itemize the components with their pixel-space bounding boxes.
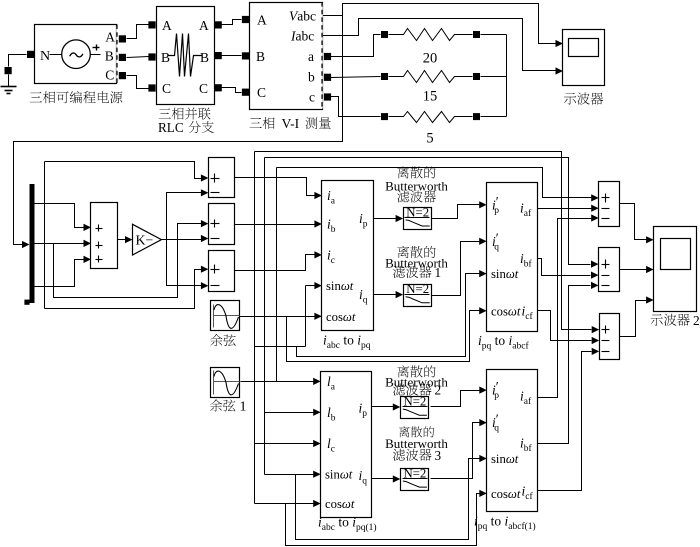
svg-text:B: B (105, 49, 114, 64)
wire lc input (255, 443, 314, 445)
wire bottom icf1 up to sum3 minus (538, 352, 592, 491)
wire cos branch down to right block cos (287, 311, 481, 362)
source N port (27, 51, 34, 58)
wire ip to filter1 (374, 218, 397, 220)
svg-text:cosωt: cosωt (491, 487, 521, 501)
iabc to ipq block (top) (322, 181, 374, 331)
wire Vabc to scope1 input1 (323, 4, 556, 44)
svg-text:cosωt: cosωt (326, 310, 356, 324)
ipq to iabcf block (top right) (487, 183, 538, 332)
wire H1 long horizontal to sum3plus (255, 152, 592, 330)
wire bus to summer input3 (35, 260, 85, 287)
svg-text:Iabc: Iabc (290, 28, 314, 43)
wire bus to summer input1 (35, 204, 85, 228)
wire sumC output to ic (235, 255, 315, 271)
wire ibf to sum2 (538, 259, 591, 276)
wire sum2 to scope2 (620, 269, 647, 271)
wire bottom ibf1 up to sum2 minus (538, 286, 591, 444)
svg-text:K−: K− (136, 233, 154, 248)
svg-text:1: 1 (435, 265, 442, 280)
wire cosine source to cos input top block (240, 316, 315, 318)
sum block B (209, 204, 235, 245)
wire source B to RLC B (127, 57, 149, 58)
VI label (250, 118, 262, 128)
wire source C to RLC C (127, 76, 149, 89)
wire RLC A to VI A (222, 20, 242, 25)
svg-text:15: 15 (423, 89, 438, 105)
wire b to resistor15 (331, 77, 381, 78)
wire c to resistor5 (331, 97, 381, 117)
sum block C (209, 251, 235, 292)
svg-text:A: A (257, 12, 267, 27)
wire H3 long horizontal to sum1plus (277, 168, 592, 198)
wire sumB output to ib (235, 224, 315, 226)
wire filter3 to bottom ip prime (431, 391, 481, 407)
right sum block 3 (600, 314, 620, 360)
svg-text:sinωt: sinωt (326, 279, 354, 293)
svg-text:B: B (200, 50, 209, 65)
svg-text:c: c (309, 90, 315, 105)
wire sum3 to scope2 (620, 301, 647, 337)
svg-text:C: C (105, 68, 114, 83)
svg-text:C: C (199, 81, 208, 96)
svg-text:Vabc: Vabc (289, 8, 316, 23)
wire sum1 to scope2 (620, 204, 647, 240)
wire bottom iq to filter4 (372, 478, 394, 480)
ipq to iabcf(1) block (bottom right) (487, 370, 538, 512)
svg-text:2: 2 (693, 313, 700, 328)
svg-text:A: A (199, 18, 209, 33)
wire V3 down to la (276, 168, 278, 382)
wire H2 long horizontal to sum2plus (265, 158, 591, 265)
scope 2 (654, 227, 697, 312)
resistor 15 (381, 73, 388, 80)
svg-text:b: b (308, 70, 315, 85)
svg-text:Butterworth: Butterworth (385, 179, 448, 194)
wire sin net top block (306, 285, 315, 287)
wire iaf to sum1 (538, 208, 592, 210)
wire gain output to sumB minus (162, 239, 202, 241)
wire Iabc to scope1 input2 (323, 19, 556, 71)
gain K- triangle (133, 224, 162, 255)
wire sin bottom relay to bottom-right block sin (296, 459, 481, 540)
summer +++ block (91, 203, 118, 269)
wire resistor right bus (481, 34, 507, 36)
wire sin input bottom block (265, 474, 314, 476)
svg-text:V-I: V-I (282, 116, 300, 131)
RLC coil icon (169, 34, 202, 77)
source ports A B C (119, 35, 126, 42)
wire V2 down to lb and sin of bottom block (264, 158, 266, 475)
wire bottom iaf1 up to sum1 minus (538, 219, 592, 398)
wire sumA plus feed (45, 162, 202, 179)
cosine source (211, 301, 240, 331)
wire sin relay to right block sin (297, 274, 481, 357)
wire bottom ip to filter3 (372, 406, 394, 408)
wire a to resistor20 (331, 35, 381, 57)
wire RLC B to VI B (222, 55, 242, 57)
wire left rail vertical x44 (44, 162, 46, 309)
svg-text:B: B (256, 49, 265, 64)
wire Vabc branch down-left into bus mux (14, 16, 343, 245)
discrete Butterworth filter 2 (404, 285, 432, 307)
ground (5, 67, 12, 74)
svg-text:B: B (161, 50, 170, 65)
three-phase V-I measurement block (242, 16, 249, 23)
svg-text:5: 5 (426, 131, 433, 147)
svg-text:C: C (257, 85, 266, 100)
wire filter4 to bottom iq prime (431, 423, 481, 479)
wire rail y298 to sumB plus (54, 224, 202, 298)
svg-text:a: a (308, 49, 314, 64)
right sum block 1 (599, 182, 620, 227)
source label (30, 92, 42, 102)
svg-text:RLC: RLC (158, 120, 184, 135)
wire bottom rail y308 to sumC plus (45, 270, 202, 309)
svg-text:2: 2 (435, 383, 442, 398)
wire lb input (265, 412, 314, 414)
wire cos bottom relay to bottom-right block cos (286, 494, 481, 546)
discrete Butterworth filter 4 (401, 469, 429, 491)
wire filter1 to ip prime (432, 205, 481, 219)
three-phase programmable source block (35, 25, 117, 84)
wire cosine1 source to la input (241, 381, 314, 383)
discrete Butterworth filter 1 (404, 208, 432, 230)
svg-text:sinωt: sinωt (491, 452, 519, 466)
svg-text:cosωt: cosωt (325, 497, 355, 511)
scope 1 (563, 30, 605, 86)
svg-text:sinωt: sinωt (491, 267, 519, 281)
source circle (62, 40, 91, 69)
sum block A (209, 158, 235, 198)
wire source A to RLC A (127, 25, 149, 39)
svg-text:A: A (105, 30, 115, 45)
three-phase parallel RLC branch block (148, 21, 155, 28)
svg-text:cosωt: cosωt (491, 304, 521, 318)
wire iq to filter2 (374, 294, 397, 296)
svg-text:sinωt: sinωt (325, 468, 353, 482)
right sum block 2 (599, 248, 620, 292)
iabc to ipq(1) block (bottom) (321, 372, 372, 518)
svg-text:3: 3 (435, 448, 442, 463)
RLC right ports (215, 21, 222, 28)
wire icf to sum3 (538, 311, 592, 341)
wire filter2 to iq prime (432, 242, 481, 296)
wire gain branch down to sumC minus (167, 240, 202, 286)
svg-text:1: 1 (240, 400, 247, 415)
wire cos input bottom block (255, 503, 314, 505)
resistor 5 (381, 113, 388, 120)
discrete Butterworth filter 3 (401, 397, 429, 419)
wire gain branch up to sumA minus (167, 193, 202, 240)
svg-text:A: A (162, 18, 172, 33)
wire sumA output to ia (235, 178, 315, 196)
wire bus to summer input2 (35, 243, 85, 245)
wire RLC C to VI C (222, 88, 242, 93)
RLC label (159, 108, 171, 118)
svg-text:20: 20 (423, 51, 438, 67)
VI output ports a b c (324, 53, 331, 60)
bus selector bar (30, 184, 35, 303)
svg-text:C: C (162, 81, 171, 96)
cosine1 source (211, 368, 240, 398)
wire summer to gain (118, 239, 127, 241)
wire V1 down to lc and cos of bottom block (254, 152, 256, 504)
svg-text:N: N (40, 49, 50, 64)
resistor 20 (381, 31, 388, 38)
